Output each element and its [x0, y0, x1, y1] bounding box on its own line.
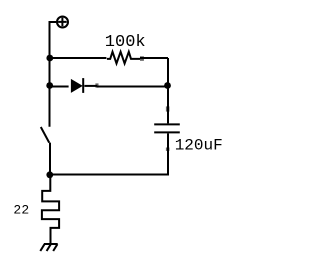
svg-text:22: 22	[13, 203, 29, 218]
svg-text:100k: 100k	[105, 33, 146, 52]
svg-text:120uF: 120uF	[175, 136, 223, 154]
